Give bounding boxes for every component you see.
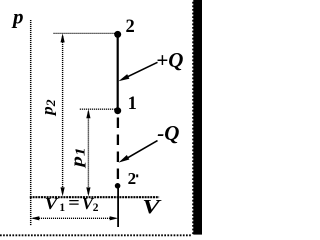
+Q arrow xyxy=(126,62,158,77)
point 2 xyxy=(114,31,121,38)
p1 dimension line xyxy=(87,112,89,195)
p2 dimension line xyxy=(62,36,64,194)
bottom dotted page border xyxy=(0,234,192,236)
svg-text:1: 1 xyxy=(59,202,65,214)
svg-text:2: 2 xyxy=(93,202,99,214)
right black border bar xyxy=(192,0,202,235)
svg-text:2: 2 xyxy=(128,169,137,188)
svg-text:p: p xyxy=(11,5,24,29)
extension line at p2 level (dotted, to point 2) xyxy=(54,32,117,34)
bottom dimension line V1=V2 xyxy=(33,217,115,219)
svg-text:+Q: +Q xyxy=(156,48,183,72)
p axis (vertical, dotted) xyxy=(30,20,32,226)
svg-text:1: 1 xyxy=(128,94,137,114)
svg-text:-Q: -Q xyxy=(157,121,179,145)
V axis (horizontal) xyxy=(30,196,159,198)
extension line at p1 level (dotted, to point 1) xyxy=(80,108,116,110)
svg-text:V: V xyxy=(142,196,162,218)
label 2' prime mark xyxy=(136,174,138,177)
-Q arrow xyxy=(126,141,158,159)
svg-text:p1: p1 xyxy=(69,147,88,169)
point 2' xyxy=(115,183,121,189)
svg-text:2: 2 xyxy=(126,17,135,37)
svg-text:=: = xyxy=(68,193,80,213)
process line 1-2' (dashed) xyxy=(117,118,119,184)
extension below 2' xyxy=(117,186,119,227)
isochoric process line 2-1 (solid) xyxy=(117,35,119,112)
point 1 xyxy=(114,107,121,114)
